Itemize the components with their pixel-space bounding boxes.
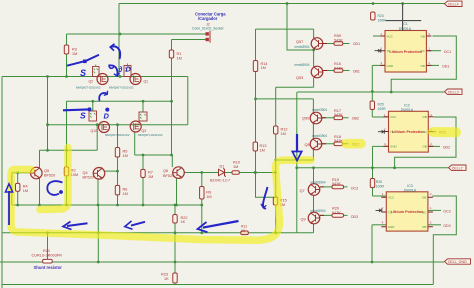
svg-text:R22: R22 (181, 216, 188, 220)
resistor R4 (16, 183, 29, 193)
svg-text:Q7: Q7 (300, 189, 305, 193)
wire Q50 collector line (255, 98, 314, 100)
svg-text:CELL4: CELL4 (448, 2, 459, 6)
svg-text:OB2: OB2 (352, 116, 359, 120)
svg-text:DW01A: DW01A (399, 27, 412, 31)
wire Q5 collector stub (39, 150, 41, 167)
wire shunt rail (0, 261, 444, 263)
resistor R2 (64, 167, 78, 177)
svg-text:CURLS-3R003FR: CURLS-3R003FR (32, 254, 63, 258)
resistor R25 (370, 101, 386, 111)
resistor R9 (200, 187, 212, 200)
svg-text:R11: R11 (241, 225, 247, 229)
svg-text:R10: R10 (233, 161, 240, 165)
wire Q53 emitter stub (313, 78, 315, 87)
wire Q6 collector line D1/R10 (185, 172, 275, 174)
tag OC1 (441, 50, 452, 54)
svg-text:10M: 10M (71, 173, 78, 177)
svg-text:Conn_01x02_Socket: Conn_01x02_Socket (192, 27, 224, 31)
svg-text:GND: GND (388, 225, 396, 229)
wire R5/R6 column (117, 125, 119, 205)
wire V x47 row1-collector rail (47, 77, 49, 151)
svg-text:1K: 1K (164, 277, 169, 281)
wire emitter rail (12, 204, 202, 206)
svg-text:DW01A: DW01A (401, 108, 414, 112)
svg-text:BZX4C-12-7: BZX4C-12-7 (210, 179, 230, 183)
wire IC3 OC to tag (428, 209, 441, 211)
svg-text:Q2: Q2 (89, 80, 94, 84)
svg-text:1M: 1M (23, 189, 28, 193)
svg-text:MMQ60T-02SLV02: MMQ60T-02SLV02 (138, 133, 163, 137)
resistor R12 (274, 126, 288, 136)
svg-text:MMQ60T-02SLV02: MMQ60T-02SLV02 (109, 85, 134, 89)
wire Q6 collector stub (171, 155, 173, 167)
resistor R24 (371, 12, 387, 22)
svg-text:Q57: Q57 (296, 40, 303, 44)
svg-text:S: S (80, 68, 86, 78)
annotation squiggle near Q7 (263, 187, 268, 208)
wire Q5 emitter stub (39, 179, 41, 206)
wire bridge row1-row2 (187, 77, 189, 125)
wire IC2 GND wire (373, 145, 389, 147)
wire IC1 GND to CELL3 (372, 64, 385, 66)
svg-text:DW01A: DW01A (404, 189, 417, 193)
svg-text:CELL2: CELL2 (452, 166, 463, 170)
svg-text:R23: R23 (161, 273, 168, 277)
transistor Q5 BF520 (30, 167, 55, 179)
wire row2 MOSFET rail (48, 124, 188, 126)
svg-text:mmbt3904: mmbt3904 (311, 181, 326, 185)
wire CELL3 line (297, 91, 444, 93)
tag OC2 (436, 130, 447, 134)
svg-text:BF520: BF520 (163, 174, 174, 178)
svg-text:1M: 1M (261, 66, 266, 70)
wire left edge net (1, 77, 3, 288)
svg-text:R6: R6 (123, 188, 128, 192)
wire R2 column (66, 101, 68, 205)
svg-text:mmbt3904: mmbt3904 (295, 63, 310, 67)
svg-text:R18: R18 (334, 135, 341, 139)
svg-text:1M: 1M (148, 175, 153, 179)
svg-text:R5: R5 (123, 150, 128, 154)
MOSFET Q2 row1 left (76, 65, 108, 90)
svg-text:R9: R9 (206, 191, 211, 195)
tag OD2 (440, 145, 451, 149)
svg-text:D: D (104, 112, 110, 121)
svg-text:1K: 1K (241, 229, 246, 233)
wire Q50-Q8 link (312, 124, 314, 139)
wire Q9 base net (320, 214, 348, 216)
svg-text:543K: 543K (332, 211, 341, 215)
svg-text:R26: R26 (376, 180, 382, 184)
wire Q4 emitter stub (97, 179, 99, 205)
resistor R21 shunt (43, 259, 53, 263)
svg-text:mmbt3904: mmbt3904 (312, 108, 327, 112)
wire Q3 source drop (134, 132, 136, 155)
svg-text:Lithium Protection: Lithium Protection (389, 50, 422, 54)
svg-text:Shunt resistor: Shunt resistor (34, 265, 63, 270)
svg-text:VCC: VCC (390, 115, 397, 119)
tag OD1 (439, 64, 450, 68)
highlighter stroke main path (11, 160, 311, 240)
wire V from top rail to row1 (118, 4, 120, 77)
svg-text:100R: 100R (378, 107, 387, 111)
svg-text:R4: R4 (23, 185, 28, 189)
wire Q7 collector stub (313, 168, 315, 184)
wire Q57 base net (323, 43, 350, 45)
wire R13 to R15 link (255, 196, 276, 198)
transistor Q6 BF520 (163, 167, 184, 179)
annotation curved arrow row1 (111, 46, 120, 59)
wire Q57 collector stub (313, 29, 315, 38)
transistor Q8 (305, 134, 328, 150)
wire Q5 base drop (11, 173, 13, 205)
wire IC2 GND drop / R26 column (372, 146, 374, 196)
wire IC1 VCC feed (373, 35, 385, 37)
svg-text:OD2: OD2 (443, 145, 450, 149)
svg-text:R12: R12 (281, 128, 288, 132)
IC1 TD pin arrow (375, 49, 381, 53)
svg-text:R3: R3 (72, 48, 77, 52)
svg-text:OD1: OD1 (442, 64, 449, 68)
tag CELL2 (449, 165, 467, 170)
wire R3 column (66, 34, 68, 77)
highlighter blob OC2 right tag (433, 127, 456, 137)
annotation left arrow 2 (203, 221, 239, 228)
wire gate stub row2 left (92, 101, 94, 111)
wire Q57 collector line (256, 28, 314, 30)
svg-text:R20: R20 (332, 206, 339, 210)
svg-text:mmbt3904: mmbt3904 (311, 209, 326, 213)
svg-text:1M: 1M (72, 52, 77, 56)
wire Q53 emitter jog (276, 86, 314, 88)
annotation circle mark row1 (109, 65, 114, 69)
annotation left arrow 1 (67, 223, 88, 226)
wire V x97 link (96, 125, 98, 151)
svg-text:Q5: Q5 (44, 169, 49, 173)
wire R7 column (142, 155, 144, 205)
IC IC1 DW01A Lithium Protection (380, 22, 431, 72)
transistor Q4 BF520 (83, 167, 105, 179)
resistor R18 (334, 135, 343, 146)
wire R9 column (201, 173, 203, 233)
svg-text:MMQ60T-02SLV02: MMQ60T-02SLV02 (76, 85, 101, 89)
svg-text:IC3: IC3 (407, 184, 413, 188)
wire top rail BAT+ (119, 3, 445, 5)
resistor R19 (332, 178, 344, 189)
svg-text:1M: 1M (260, 148, 265, 152)
resistor R11 on gnd rail (241, 225, 249, 235)
svg-text:1M: 1M (206, 195, 211, 199)
svg-text:OC3: OC3 (443, 209, 450, 213)
wire rail to Q6 (135, 154, 173, 156)
wire gate drive line (67, 100, 172, 102)
wire R14/R13 column (255, 29, 257, 197)
MOSFET Q3 row2 right (130, 110, 163, 137)
wire IC3 pin3 loop to bottom (432, 196, 456, 285)
tag CELL4 (445, 1, 463, 6)
annotation arc arrow row1 right (109, 65, 117, 75)
wire Q5 base wire (12, 172, 31, 174)
svg-text:OD1: OD1 (353, 42, 360, 46)
resistor R5 (115, 148, 127, 158)
resistor R14 (253, 61, 267, 72)
resistor R13 (253, 142, 266, 152)
svg-text:Q9: Q9 (301, 218, 306, 222)
svg-text:CELL3: CELL3 (448, 90, 459, 94)
svg-text:Lithium Protection: Lithium Protection (391, 210, 424, 214)
svg-text:OB: OB (421, 34, 425, 38)
IC3 TD pin arrow (376, 208, 382, 212)
IC IC2 DW01A Lithium Protection (384, 103, 434, 152)
wire IC3 OD to tag (428, 224, 441, 226)
svg-text:OB: OB (422, 225, 426, 229)
svg-text:BF520: BF520 (83, 175, 94, 179)
svg-text:VCC: VCC (388, 196, 395, 200)
tag OD1 (350, 42, 361, 46)
svg-text:R21: R21 (43, 249, 50, 253)
wire IC3 GND drop to CELL_GND (371, 225, 373, 262)
svg-text:OB: OB (421, 64, 425, 68)
svg-text:R19: R19 (332, 178, 339, 182)
wire Q7-Q9 link (313, 196, 315, 213)
wire Q50 collector stub (312, 99, 314, 113)
resistor R7 (141, 169, 153, 179)
svg-text:OD3: OD3 (443, 224, 450, 228)
wire IC2 OC to tag (428, 131, 436, 133)
wire IC2 pin3 loop to CELL2 (395, 117, 456, 168)
wire Q8 base net (322, 143, 349, 145)
wire gate stub row2 right (142, 101, 144, 112)
wire Q9 emitter stub (313, 224, 315, 233)
svg-text:Lithium Protection: Lithium Protection (392, 130, 425, 134)
svg-text:543K: 543K (334, 113, 343, 117)
IC2 TD pin arrow (378, 130, 384, 134)
resistor R16 (334, 62, 343, 72)
wire V from top rail x287 (287, 4, 314, 51)
svg-text:MMQ60T-02SLV02: MMQ60T-02SLV02 (105, 133, 130, 137)
tag OC2 (349, 142, 360, 146)
wire IC3 GND wire (372, 224, 386, 226)
transistor Q50 (302, 108, 327, 124)
wire Q8 emitter wire (276, 159, 314, 161)
svg-text:CELL_GND: CELL_GND (448, 260, 467, 264)
wire R22/R23 column (174, 205, 176, 285)
svg-text:OB: OB (422, 145, 426, 149)
tag OD3 (440, 224, 451, 228)
annotation diagonal stroke row1 (67, 55, 99, 66)
svg-text:Q1: Q1 (144, 80, 149, 84)
resistor R22 (173, 215, 188, 225)
wire IC2 VCC feed (372, 116, 388, 118)
annotation down arrow center (296, 134, 298, 152)
wire R4 column (17, 173, 19, 205)
tag OC3 (348, 187, 359, 191)
wire Q57-Q53 link (313, 50, 315, 67)
tag OB1 (350, 70, 360, 74)
svg-text:1M: 1M (123, 154, 128, 158)
svg-text:R59: R59 (334, 34, 341, 38)
svg-text:/Cargador: /Cargador (198, 16, 218, 21)
svg-text:R14: R14 (261, 62, 268, 66)
svg-text:Q50: Q50 (302, 117, 309, 121)
wire Q8 emitter stub (312, 150, 314, 161)
wire Q50 base net (322, 117, 349, 119)
svg-text:GND: GND (390, 145, 398, 149)
svg-text:100R: 100R (378, 18, 387, 22)
svg-text:S: S (80, 111, 86, 121)
annotation loop arrow (47, 181, 62, 195)
svg-text:1M: 1M (233, 165, 238, 169)
svg-text:Q6: Q6 (163, 169, 168, 173)
svg-text:R25: R25 (378, 103, 384, 107)
svg-text:543K: 543K (334, 39, 343, 43)
svg-text:IC2: IC2 (404, 103, 410, 107)
wire V x98 gnd drop (97, 205, 99, 262)
resistor R59 (334, 34, 343, 45)
svg-text:Q10: Q10 (91, 129, 98, 133)
MOSFET Q10 row2 left (89, 109, 130, 137)
wire IC2 OD to tag (428, 145, 440, 147)
svg-text:R1: R1 (177, 52, 182, 56)
wire row1 MOSFET rail (2, 76, 188, 78)
svg-text:GND: GND (387, 64, 395, 68)
wire Q53 base net (323, 70, 350, 72)
transistor Q9 (301, 209, 326, 224)
resistor R17 (334, 109, 343, 120)
svg-text:543K: 543K (334, 66, 343, 70)
svg-text:543K: 543K (332, 182, 341, 186)
svg-text:R17: R17 (334, 109, 341, 113)
diode D1 zener BZX4C-12-7 (219, 169, 227, 177)
svg-text:R7: R7 (148, 171, 153, 175)
annotation up arrow left (8, 191, 10, 225)
wire IC1 pin3 loop to CELL3 (391, 36, 456, 92)
resistor R26 (370, 179, 384, 189)
resistor R6 (115, 185, 127, 196)
svg-text:Q4: Q4 (83, 171, 88, 175)
svg-text:1M: 1M (123, 192, 128, 196)
svg-text:OC1: OC1 (444, 50, 451, 54)
resistor R1 (169, 50, 181, 60)
wire Q7 base net (320, 186, 348, 188)
tag OC3 (440, 209, 451, 213)
wire R12/R15 column (275, 87, 277, 233)
transistor Q57 (295, 38, 324, 50)
svg-text:OB: OB (422, 196, 426, 200)
BJT base pin stubs (320, 44, 327, 216)
wire IC3 VCC feed (373, 195, 387, 197)
svg-text:OD3: OD3 (351, 215, 358, 219)
tag CELL3 (445, 89, 463, 94)
svg-text:R16: R16 (334, 62, 341, 66)
svg-text:mmbt3904: mmbt3904 (295, 45, 310, 49)
resistor R23 (173, 273, 177, 283)
wire Q6 emitter stub (176, 179, 178, 206)
MOSFET Q1 row1 right (109, 64, 148, 90)
svg-text:Q8: Q8 (305, 143, 310, 147)
svg-text:1K: 1K (181, 220, 186, 224)
svg-text:Q53: Q53 (296, 76, 303, 80)
tag CELL_GND (445, 259, 471, 264)
svg-text:OB1: OB1 (353, 70, 360, 74)
svg-text:1M: 1M (177, 56, 182, 60)
capacitor C1 (dark cross) (385, 4, 421, 32)
resistor R15 (273, 197, 286, 207)
highlighter blob OC2 left tag (346, 139, 361, 149)
wire V x47 gnd drop (47, 233, 49, 262)
resistor R10 (232, 161, 240, 175)
wire bottom rail (2, 284, 433, 286)
transistor Q7 (300, 181, 326, 196)
svg-text:BF520: BF520 (44, 174, 55, 178)
svg-text:R24: R24 (378, 14, 384, 18)
svg-text:OB: OB (422, 115, 426, 119)
resistor R20 (332, 206, 344, 217)
connector J2 Conn_01x02_Socket (196, 31, 210, 43)
svg-text:100R: 100R (376, 184, 385, 188)
wire Q4 collector wire (104, 170, 118, 172)
annotation arc arrow row2 (99, 93, 107, 101)
svg-text:mmbt3904: mmbt3904 (312, 134, 327, 138)
wire IC1 GND drop / R25 column (371, 65, 373, 117)
wire J2 pin1 to R3/V1 (67, 33, 197, 35)
tag OB2 (349, 116, 359, 120)
wire CELL3 base column (296, 92, 298, 233)
wire IC1 OC to tag (426, 50, 441, 52)
wire J2 pin2 to R1 (172, 39, 197, 41)
wire gnd rail mid (2, 232, 314, 234)
svg-text:D1: D1 (220, 165, 225, 169)
IC IC3 DW01A Lithium Protection (381, 184, 433, 231)
svg-text:R13: R13 (260, 144, 267, 148)
wire IC1 OD to tag (426, 64, 439, 66)
svg-text:D: D (126, 65, 132, 74)
wire R1 column (171, 40, 173, 156)
svg-text:VCC: VCC (387, 34, 394, 38)
wire CELL2 line (297, 167, 450, 169)
wire collector rail Q5/Q4 (40, 149, 98, 151)
svg-text:OC3: OC3 (351, 187, 358, 191)
annotation left arrow middle (131, 222, 145, 226)
svg-text:1M: 1M (281, 132, 286, 136)
transistor Q53 (295, 63, 324, 80)
tag OD3 (348, 215, 359, 219)
highlighter stroke R2 column (40, 148, 68, 210)
resistor R3 (64, 45, 77, 56)
annotation segment with dots row2 (63, 108, 89, 111)
